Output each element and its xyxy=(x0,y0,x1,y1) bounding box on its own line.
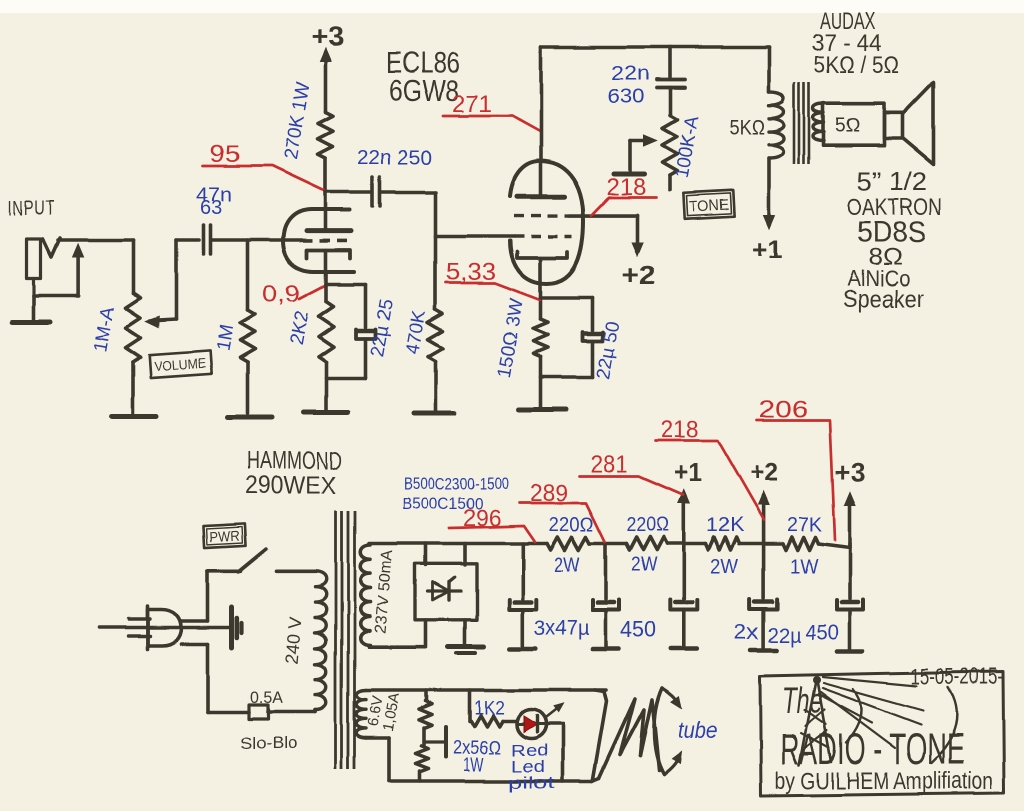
resistor R12 56R xyxy=(415,728,428,781)
label tube xyxy=(678,717,717,743)
pentode screen grid (dashed) xyxy=(514,214,570,217)
resistor R2 1M xyxy=(240,310,255,362)
heater arrow bottom xyxy=(664,752,682,775)
svg-text:22µ: 22µ xyxy=(768,624,801,647)
rectifier diode symbol xyxy=(428,577,461,600)
svg-text:Speaker: Speaker xyxy=(843,286,924,313)
label 290WEX xyxy=(245,472,336,500)
heater element 1 xyxy=(599,699,644,778)
triode anode xyxy=(307,228,351,233)
jack switch contact arrow xyxy=(34,244,84,296)
wire plug to switch xyxy=(181,571,208,621)
pwr box label xyxy=(203,524,245,548)
potentiometer 100K-A (tone) xyxy=(663,115,678,190)
wire secondary bottom xyxy=(369,620,426,647)
wire R5 to ground xyxy=(434,362,438,411)
label Red xyxy=(511,741,548,760)
volume box label xyxy=(149,351,211,378)
label 1M xyxy=(213,323,238,353)
label 150R 3W xyxy=(493,297,528,379)
svg-text:22n 250: 22n 250 xyxy=(357,147,432,169)
svg-text:2K2: 2K2 xyxy=(286,310,313,347)
svg-text:3x47µ: 3x47µ xyxy=(534,617,589,640)
transformer T2 secondary 237V xyxy=(360,545,370,645)
wire bus segment b xyxy=(667,542,705,546)
svg-text:27K: 27K xyxy=(787,514,823,536)
wire R2 to ground xyxy=(246,362,250,413)
label 237V 50mA xyxy=(372,549,396,634)
resistor R5 470K xyxy=(428,310,443,362)
resistor R7 220R xyxy=(547,537,590,550)
label 2x xyxy=(734,621,760,644)
svg-text:B500C2300-1500: B500C2300-1500 xyxy=(404,474,509,493)
label Slo-Blo xyxy=(240,734,297,753)
svg-text:1W: 1W xyxy=(463,755,484,776)
label 2W b xyxy=(631,554,657,576)
wire C3 to pentode grid xyxy=(381,192,514,310)
wire heater top diag xyxy=(593,690,607,779)
wire screen to +2 xyxy=(570,216,643,256)
resistor R13 1K2 xyxy=(470,690,518,727)
wire to R2 xyxy=(246,240,250,310)
wire rectifier to ground xyxy=(463,620,467,643)
wire pot bottom to ground xyxy=(131,362,135,414)
wire +3 bus xyxy=(541,46,769,50)
label 22u 25 xyxy=(367,297,398,358)
pentode cathode xyxy=(517,252,568,258)
svg-text:271: 271 xyxy=(452,91,492,118)
triode V1a envelope xyxy=(283,210,354,272)
ground (volume pot) xyxy=(112,415,157,420)
resistor R11 56R xyxy=(419,690,432,728)
wire rectifier out xyxy=(463,544,467,566)
wire heater bottom xyxy=(366,738,592,781)
wire switch to primary xyxy=(276,569,315,573)
node +2 (screen) xyxy=(622,260,656,290)
svg-text:237V 50mA: 237V 50mA xyxy=(372,549,396,634)
wire plug to fuse xyxy=(181,644,249,712)
svg-text:0,9: 0,9 xyxy=(262,281,300,308)
svg-text:22n: 22n xyxy=(611,63,650,85)
heater centre tap xyxy=(424,727,446,757)
label Speaker xyxy=(843,286,924,313)
label 2K2 xyxy=(286,310,313,347)
measurement 5,33 xyxy=(446,259,540,300)
svg-text:VOLUME: VOLUME xyxy=(154,356,207,375)
node +3 xyxy=(311,21,344,51)
label B500C1500 xyxy=(402,494,483,513)
transformer T1 secondary 5R xyxy=(814,104,825,141)
plug pin L xyxy=(129,617,151,620)
label ECL86 xyxy=(386,47,460,80)
transformer T2 primary 240V xyxy=(315,571,326,712)
svg-text:INPUT: INPUT xyxy=(8,197,55,220)
logo rays xyxy=(818,677,923,748)
label 240V xyxy=(282,616,306,665)
label 3x47u xyxy=(534,617,589,640)
svg-text:15-05-2015-: 15-05-2015- xyxy=(911,663,1003,689)
ground (1M) xyxy=(228,415,273,420)
label 1K2 xyxy=(474,698,505,719)
transformer T2 core xyxy=(336,511,355,769)
ground (rectifier) xyxy=(448,647,484,654)
svg-text:RADIO - TONE: RADIO - TONE xyxy=(780,725,964,774)
logo box xyxy=(760,672,1004,797)
svg-text:+1: +1 xyxy=(674,457,702,487)
label 47n xyxy=(196,184,232,206)
switch S1 xyxy=(208,549,267,572)
logo RADIO-TONE xyxy=(780,725,964,774)
svg-text:22µ 25: 22µ 25 xyxy=(367,297,398,358)
plug pin E xyxy=(99,626,231,629)
label HAMMOND xyxy=(247,447,342,475)
label 5K xyxy=(729,116,765,139)
node +1 arrow xyxy=(674,457,702,544)
node +3 arrow xyxy=(835,457,865,548)
label 0.5A xyxy=(250,688,284,707)
measurement 218b xyxy=(655,416,764,520)
svg-text:63: 63 xyxy=(200,197,222,219)
node +1 (OT) xyxy=(752,234,782,264)
svg-text:240 V: 240 V xyxy=(282,616,306,665)
measurement 296 xyxy=(449,505,535,542)
svg-text:+2: +2 xyxy=(622,260,656,290)
svg-text:by GUILHEM Amplifiation: by GUILHEM Amplifiation xyxy=(775,768,993,795)
wire bus segment c xyxy=(739,542,783,546)
label 450 b xyxy=(805,621,839,644)
label pilot xyxy=(508,773,555,792)
label 5D8S xyxy=(857,216,926,249)
ground (input jack) xyxy=(13,320,51,325)
label 450 a xyxy=(620,616,656,642)
transformer T2 heater 6.6V xyxy=(356,690,366,738)
svg-text:450: 450 xyxy=(620,616,656,642)
svg-text:290WEX: 290WEX xyxy=(245,472,336,500)
label 100K-A xyxy=(672,114,704,180)
resistor R4 2K2 xyxy=(319,284,334,362)
svg-text:150Ω 3W: 150Ω 3W xyxy=(493,297,528,379)
label 220R b xyxy=(626,514,669,536)
rectifier BR1 xyxy=(416,564,478,620)
svg-text:The: The xyxy=(782,680,822,721)
resistor R6 150R 3W xyxy=(533,319,548,357)
label 2x56R xyxy=(453,738,501,759)
label 2W c xyxy=(710,556,738,578)
label 1W c xyxy=(790,556,818,578)
svg-text:1M: 1M xyxy=(213,323,238,353)
label 22n 250 xyxy=(357,147,432,169)
wire LED to bottom xyxy=(546,724,563,781)
svg-text:+1: +1 xyxy=(752,234,782,264)
label 63 xyxy=(200,197,222,219)
svg-text:5Ω: 5Ω xyxy=(835,115,860,137)
wire R4/C2 to ground xyxy=(326,362,366,410)
heater element 2 xyxy=(640,688,664,775)
pentode control grid (dashed) xyxy=(514,235,572,238)
capacitor C7 47u xyxy=(592,544,619,649)
tone wiper arrow xyxy=(630,135,657,171)
svg-text:220Ω: 220Ω xyxy=(626,514,669,536)
wire cathode down xyxy=(324,250,328,285)
svg-text:470K: 470K xyxy=(402,309,430,357)
capacitor C8 22u xyxy=(670,544,697,650)
tone box label xyxy=(683,191,734,220)
input label xyxy=(8,197,55,220)
svg-text:HAMMOND: HAMMOND xyxy=(247,447,342,475)
label Led xyxy=(511,757,545,776)
label 630 xyxy=(607,86,644,108)
label 5R xyxy=(835,115,860,137)
fuse F1 0.5A xyxy=(249,705,315,719)
svg-text:220Ω: 220Ω xyxy=(549,514,594,536)
label OAKTRON xyxy=(847,194,942,221)
heater arrow top xyxy=(662,688,681,708)
wire secondary to bus xyxy=(369,542,547,546)
plug pin N xyxy=(129,634,151,637)
wire down to volume pot xyxy=(131,240,135,293)
transformer T1 core xyxy=(795,83,810,164)
svg-text:2W: 2W xyxy=(554,554,580,576)
svg-text:1W: 1W xyxy=(790,556,818,578)
wire cathode node 2 xyxy=(541,296,593,300)
label AUDAX xyxy=(820,8,876,35)
resistor R3 270K 1W xyxy=(318,112,333,158)
potentiometer 1M-A (volume) xyxy=(126,293,141,362)
capacitor C10 22u xyxy=(837,544,864,652)
capacitor C5 22n/630 xyxy=(657,48,685,116)
capacitor C4 22u/50 xyxy=(583,298,603,377)
jack tip contact xyxy=(43,238,60,257)
svg-text:281: 281 xyxy=(590,451,628,478)
ground (2K2) xyxy=(304,410,348,415)
svg-text:2W: 2W xyxy=(710,556,738,578)
wire bus to pentode anode xyxy=(539,48,543,197)
logo arcs xyxy=(846,687,957,763)
label 6.6V 1,05A xyxy=(365,691,404,733)
wire R10 to +3 xyxy=(819,544,851,548)
wire bus to rectifier xyxy=(424,544,428,566)
capacitor C3 22n/250 xyxy=(373,177,381,206)
label 22n xyxy=(611,63,650,85)
label 5inch xyxy=(857,166,927,196)
wire bus segment a xyxy=(590,542,626,546)
svg-text:+3: +3 xyxy=(311,21,344,51)
mains plug P1 xyxy=(148,606,182,649)
ground (mains earth) xyxy=(232,607,242,648)
svg-text:6GW8: 6GW8 xyxy=(389,75,459,108)
label 1M-A xyxy=(90,305,119,354)
label 22u 50 xyxy=(593,319,624,380)
pot wiper arrow xyxy=(146,240,176,327)
wire bus to OT xyxy=(767,48,771,93)
capacitor C1 47n/63 xyxy=(204,225,211,254)
LED light arrow xyxy=(546,704,563,718)
speaker horn xyxy=(903,82,934,164)
wire to C1 xyxy=(176,238,199,242)
measurement 281 xyxy=(579,451,683,495)
wire jack tip to volume pot xyxy=(58,238,133,242)
label 37-44 xyxy=(812,30,882,57)
pentode anode xyxy=(517,194,565,199)
svg-text:PWR: PWR xyxy=(209,529,240,547)
label 8R xyxy=(868,244,902,271)
measurement 218 xyxy=(592,174,656,215)
logo antenna mast xyxy=(799,676,831,765)
svg-text:0.5A: 0.5A xyxy=(250,688,284,707)
svg-text:5KΩ / 5Ω: 5KΩ / 5Ω xyxy=(814,52,899,79)
input jack J1 xyxy=(27,239,41,296)
wire pentode cathode xyxy=(539,258,543,319)
label 5K/5R xyxy=(814,52,899,79)
measurement 0,9 xyxy=(262,281,324,308)
wire jack sleeve to ground xyxy=(32,296,36,319)
measurement 95 xyxy=(203,141,325,191)
label 1W d xyxy=(463,755,484,776)
label 6GW8 xyxy=(389,75,459,108)
svg-text:Slo-Blo: Slo-Blo xyxy=(240,734,297,753)
capacitor C9 22u xyxy=(750,544,777,651)
svg-text:1M-A: 1M-A xyxy=(90,305,119,354)
resistor R8 220R xyxy=(626,537,667,550)
wire R6/C4 to ground xyxy=(541,357,593,407)
label 12K xyxy=(706,514,745,536)
svg-text:450: 450 xyxy=(805,621,839,644)
label 270K 1W xyxy=(280,81,314,162)
node +2 arrow xyxy=(750,457,778,544)
measurement 206 xyxy=(756,396,835,540)
pentode V1b envelope xyxy=(510,161,584,285)
svg-text:5KΩ: 5KΩ xyxy=(729,116,765,139)
ground (470K) xyxy=(414,412,454,417)
label 27K xyxy=(787,514,823,536)
logo The xyxy=(782,680,822,721)
ground (tone) xyxy=(614,172,645,177)
capacitor C2 22u/25 xyxy=(356,284,376,378)
svg-text:pilot: pilot xyxy=(508,773,555,792)
svg-text:+2: +2 xyxy=(750,457,778,487)
resistor R10 27K xyxy=(783,537,819,550)
measurement 271 xyxy=(443,91,541,132)
svg-text:100K-A: 100K-A xyxy=(672,114,704,180)
svg-text:+3: +3 xyxy=(835,457,865,487)
arrow +3 xyxy=(320,48,331,112)
capacitor C6 47u xyxy=(509,544,536,649)
wire R3 to anode xyxy=(324,158,328,230)
svg-text:5” 1/2: 5” 1/2 xyxy=(857,166,927,196)
svg-text:2W: 2W xyxy=(631,554,657,576)
wire C1 to grid xyxy=(212,238,303,242)
wire OT to +1 xyxy=(764,158,775,229)
svg-text:12K: 12K xyxy=(706,514,745,536)
resistor R9 12K xyxy=(705,537,739,550)
wire heater bottom diag xyxy=(592,778,599,781)
transformer T1 primary 5K xyxy=(769,92,784,158)
label 2W a xyxy=(554,554,580,576)
svg-text:TONE: TONE xyxy=(689,197,730,216)
triode grid (dashed) xyxy=(303,239,352,243)
LED D1 red pilot xyxy=(517,710,546,739)
measurement 289 xyxy=(519,480,605,542)
wire cathode node xyxy=(326,282,366,286)
svg-text:630: 630 xyxy=(607,86,644,108)
svg-text:270K 1W: 270K 1W xyxy=(280,81,314,162)
label 220R a xyxy=(549,514,594,536)
logo date xyxy=(911,663,1003,689)
label 22u b xyxy=(768,624,801,647)
wire anode to C3 xyxy=(326,190,372,194)
label 470K xyxy=(402,309,430,357)
wire heater top xyxy=(366,688,606,692)
ground (pentode cathode) xyxy=(519,407,566,412)
label AlNiCo xyxy=(847,266,910,291)
svg-text:1K2: 1K2 xyxy=(474,698,505,719)
triode cathode xyxy=(307,250,350,258)
svg-text:2x: 2x xyxy=(734,621,760,644)
svg-text:22µ 50: 22µ 50 xyxy=(593,319,624,380)
speaker magnet xyxy=(885,113,903,139)
svg-text:tube: tube xyxy=(678,717,717,743)
logo byline xyxy=(775,768,993,795)
svg-text:95: 95 xyxy=(210,141,240,168)
speaker LS1 body xyxy=(824,104,885,146)
label B500C2300-1500 xyxy=(404,474,509,493)
